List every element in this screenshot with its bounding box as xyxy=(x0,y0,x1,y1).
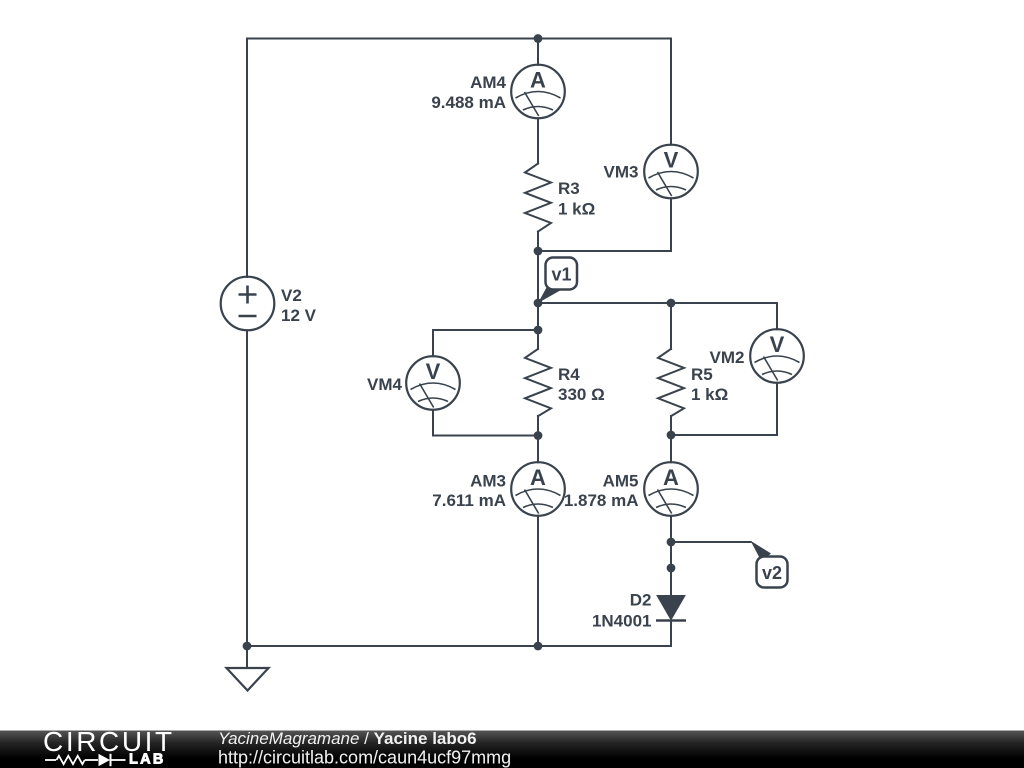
svg-text:12 V: 12 V xyxy=(281,306,317,325)
svg-text:A: A xyxy=(663,465,679,490)
ammeter AM3 xyxy=(511,462,565,516)
svg-text:A: A xyxy=(530,68,546,93)
svg-text:v2: v2 xyxy=(762,563,782,583)
voltage source V2 xyxy=(221,277,275,331)
wire left vertical to V2 xyxy=(246,39,248,278)
svg-text:1 kΩ: 1 kΩ xyxy=(558,200,595,219)
svg-text:V: V xyxy=(426,359,441,384)
wire bottom rail xyxy=(247,645,671,647)
svg-text:R5: R5 xyxy=(691,365,713,384)
wire R4 bottom to AM3 xyxy=(537,416,539,462)
node AM3 bottom rail xyxy=(534,642,543,651)
wire V2 bottom to ground rail xyxy=(246,330,248,646)
wire AM5 bottom to diode xyxy=(670,516,672,596)
wire AM4 to R3 xyxy=(537,118,539,163)
svg-text:1 kΩ: 1 kΩ xyxy=(691,385,728,404)
ammeter AM4 xyxy=(511,65,565,119)
wire VM2 bottom xyxy=(671,383,777,435)
diode D2 xyxy=(656,596,686,621)
svg-text:v1: v1 xyxy=(551,265,571,285)
svg-text:VM4: VM4 xyxy=(367,375,403,394)
node R5 top xyxy=(667,299,676,308)
wire right vertical to VM3 xyxy=(670,39,672,145)
node ground rail xyxy=(243,642,252,651)
wire AM3 bottom to rail xyxy=(537,516,539,646)
svg-text:D2: D2 xyxy=(630,591,652,610)
svg-text:V: V xyxy=(770,332,785,357)
voltmeter VM4 xyxy=(406,356,460,410)
net flag v1 xyxy=(538,258,577,304)
wire R5 bottom to AM5 xyxy=(670,416,672,462)
wire top rail xyxy=(247,38,671,40)
resistor R4 xyxy=(525,349,551,416)
ground xyxy=(227,668,269,691)
voltmeter VM2 xyxy=(750,329,804,383)
resistor R5 xyxy=(658,349,684,416)
svg-text:AM5: AM5 xyxy=(603,472,639,491)
wire VM2 top drop xyxy=(776,303,778,329)
svg-text:V2: V2 xyxy=(281,286,302,305)
svg-text:R3: R3 xyxy=(558,179,580,198)
svg-text:VM2: VM2 xyxy=(710,348,745,367)
wire top rail to AM4 xyxy=(537,39,539,65)
node v1 xyxy=(534,299,543,308)
svg-text:YacineMagramane / Yacine labo6: YacineMagramane / Yacine labo6 xyxy=(218,729,477,748)
svg-text:R4: R4 xyxy=(558,365,580,384)
svg-text:LAB: LAB xyxy=(129,752,166,768)
svg-text:A: A xyxy=(530,465,546,490)
voltmeter VM3 xyxy=(644,145,698,199)
node diode anode xyxy=(667,564,676,573)
svg-text:9.488 mA: 9.488 mA xyxy=(431,93,506,112)
wire v2 tap xyxy=(671,541,751,543)
svg-text:AM3: AM3 xyxy=(470,472,506,491)
svg-text:1N4001: 1N4001 xyxy=(592,612,652,631)
svg-text:7.611 mA: 7.611 mA xyxy=(432,491,506,510)
wire v1 rail to R5 xyxy=(670,303,672,349)
node VM4 bottom tap xyxy=(534,431,543,440)
svg-text:AM4: AM4 xyxy=(470,73,506,92)
wire diode cathode to rail xyxy=(670,621,672,647)
svg-text:http://circuitlab.com/caun4ucf: http://circuitlab.com/caun4ucf97mmg xyxy=(218,748,511,768)
wire R3 bottom to node v1 xyxy=(537,232,539,304)
svg-text:V: V xyxy=(664,148,679,173)
node R3 bottom / VM3 xyxy=(534,247,543,256)
resistor R3 xyxy=(525,164,551,232)
node top rail / AM4 xyxy=(534,34,543,43)
wire node v1 horizontal xyxy=(538,302,777,304)
node R5 bottom / VM2 xyxy=(667,431,676,440)
svg-text:330 Ω: 330 Ω xyxy=(558,385,605,404)
net flag v2 xyxy=(751,541,788,588)
ammeter AM5 xyxy=(644,462,698,516)
wire v1 to R4 xyxy=(537,303,539,349)
wire VM4 top tap xyxy=(433,330,538,356)
svg-text:VM3: VM3 xyxy=(604,163,639,182)
CircuitLab logo mini schematic xyxy=(45,754,126,766)
node VM4 top tap xyxy=(534,326,543,335)
wire VM3 bottom xyxy=(538,198,671,251)
node v2 tap xyxy=(667,538,676,547)
wire VM4 bottom tap xyxy=(433,410,538,436)
wire ground stub xyxy=(246,646,248,668)
svg-text:1.878 mA: 1.878 mA xyxy=(564,491,639,510)
